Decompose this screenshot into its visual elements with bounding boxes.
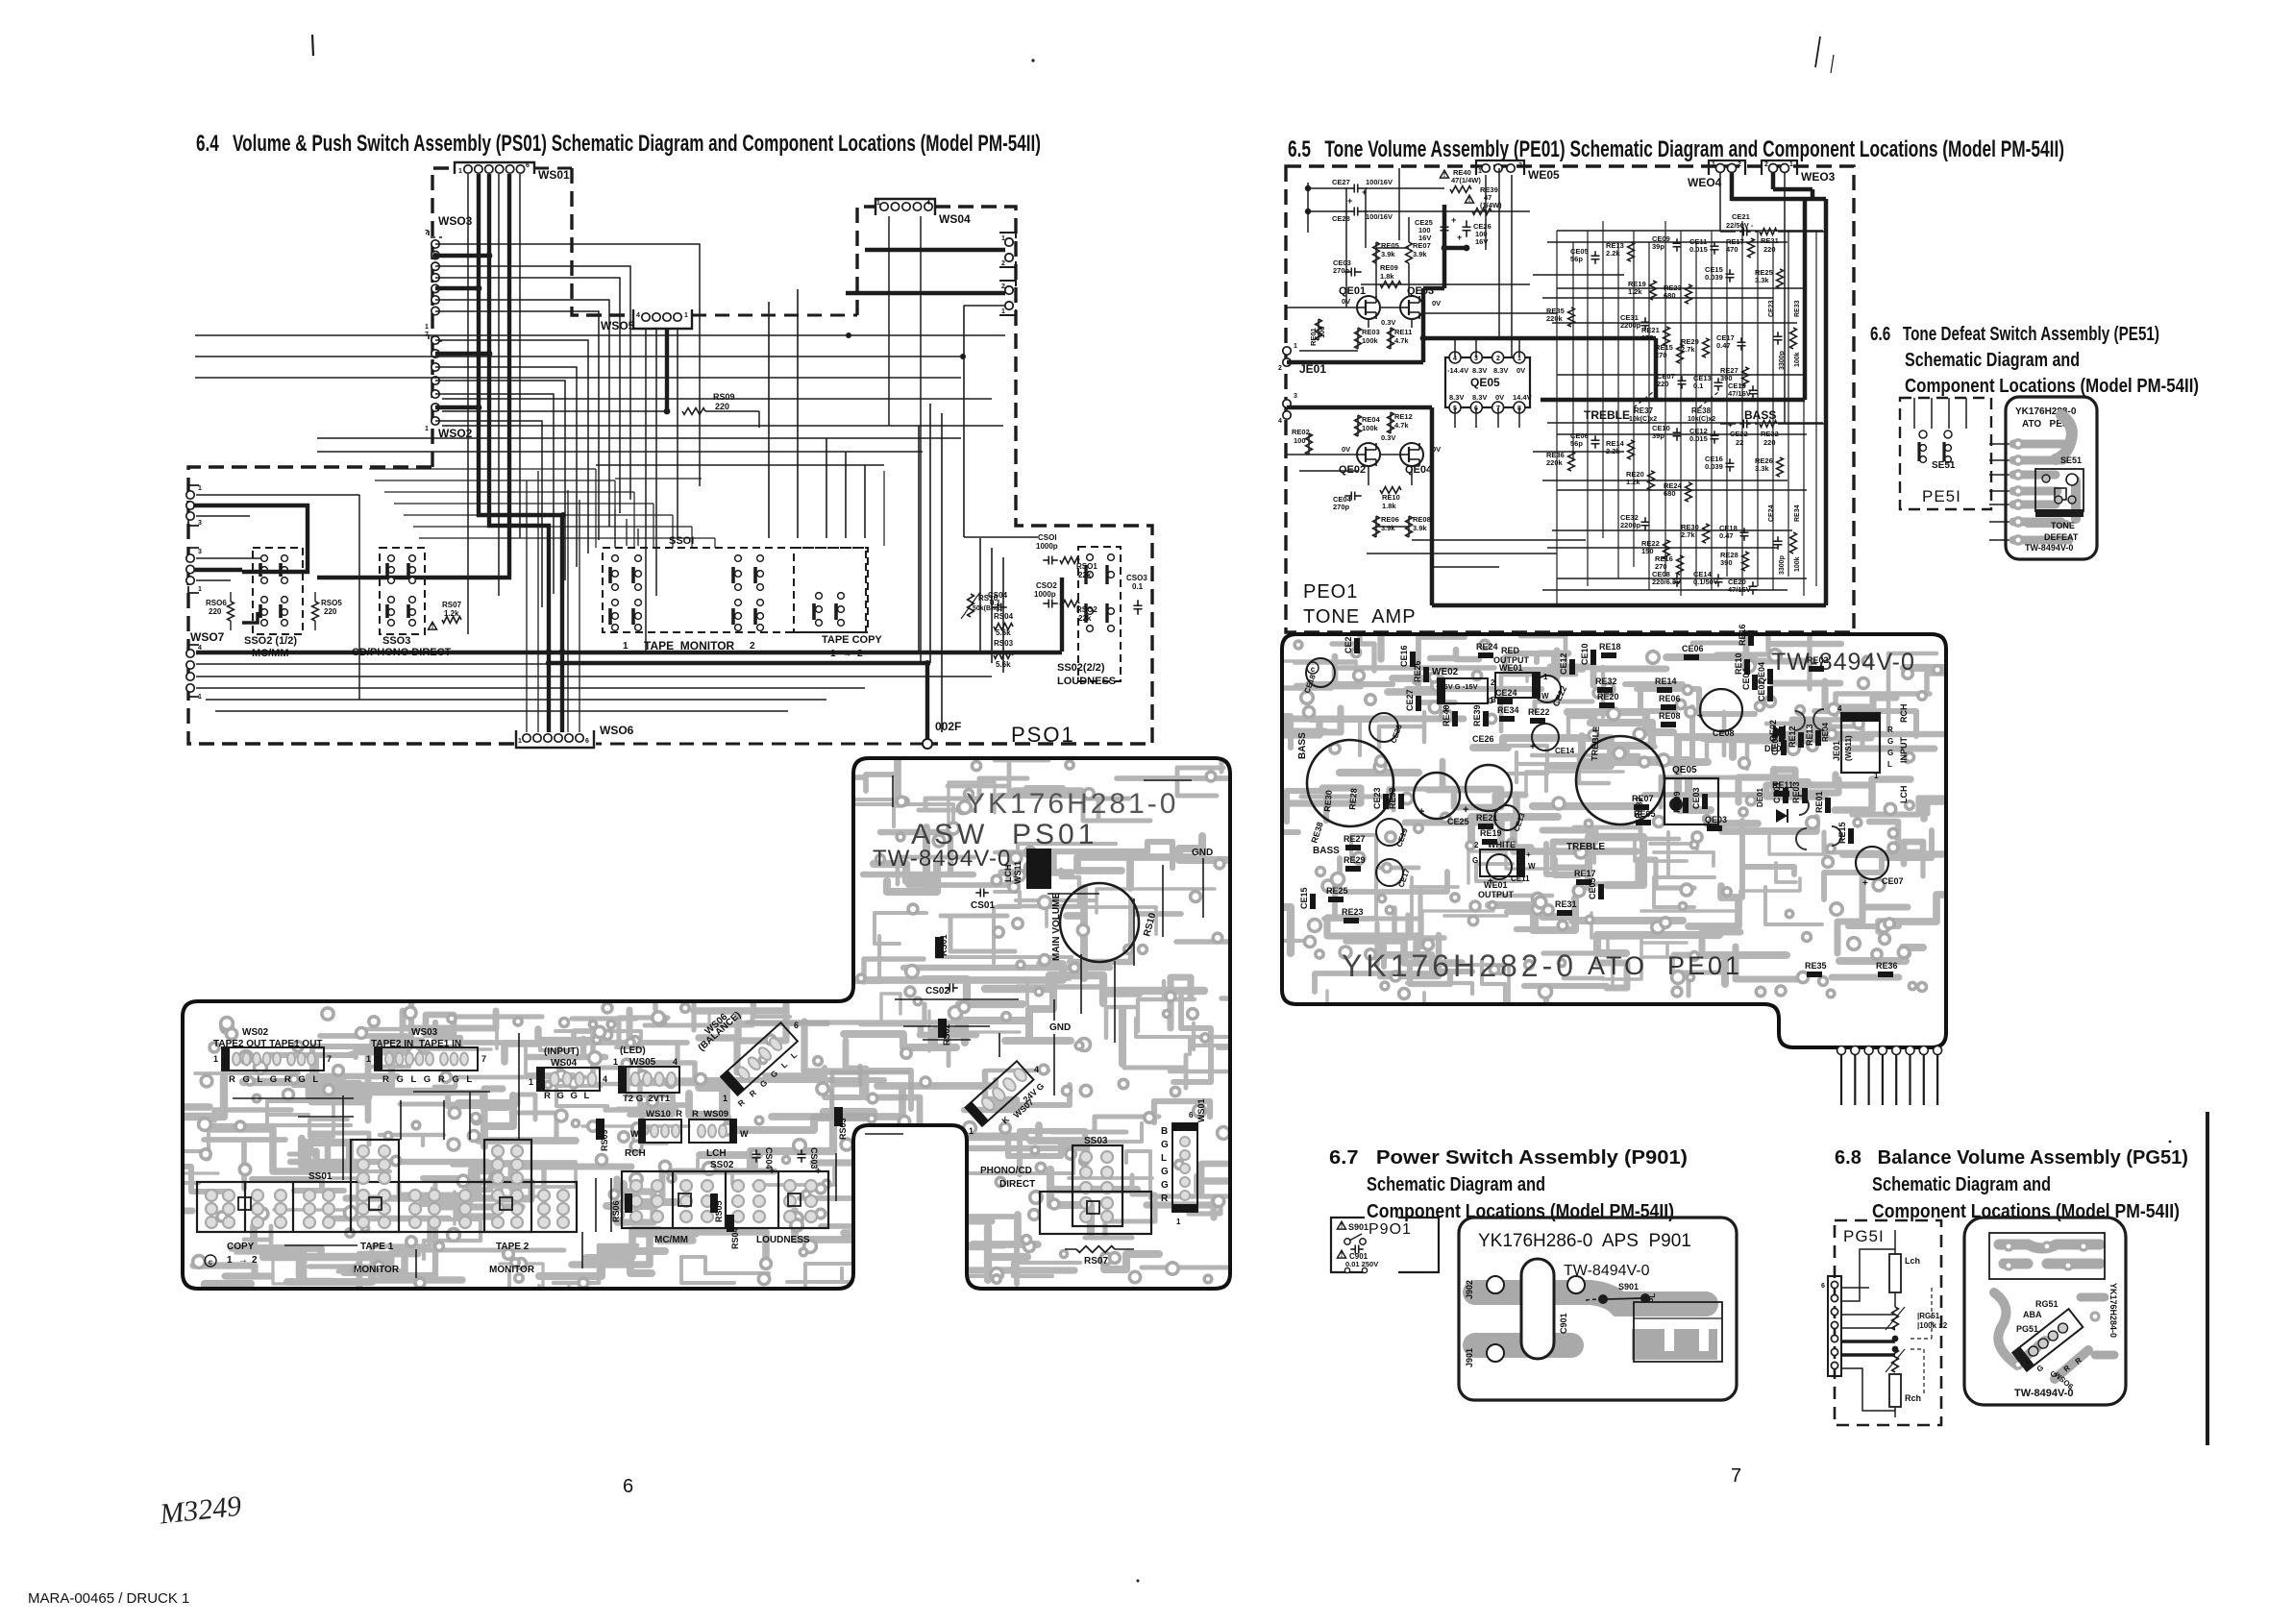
svg-text:PEO1: PEO1 [1303,581,1358,603]
resistor RE23 [1686,284,1692,304]
connector WS01 [455,162,570,182]
wire [1497,407,1499,428]
svg-text:TONE AMP: TONE AMP [1303,606,1417,627]
wire [1511,175,1513,357]
ASW PCB connector WS06 BALANCE [721,1022,798,1095]
svg-text:RE27: RE27 [1344,834,1366,844]
resistor RE29 [1703,338,1710,357]
svg-text:TAPE 1: TAPE 1 [360,1242,394,1252]
wire [435,278,620,513]
svg-text:INPUT: INPUT [1899,736,1909,763]
svg-text:220: 220 [715,402,729,411]
svg-text:B: B [1161,1126,1168,1137]
svg-text:CE28: CE28 [1332,214,1350,223]
capacitor CE32 [1644,517,1646,522]
svg-text:MARA-00465 / DRUCK 1: MARA-00465 / DRUCK 1 [28,1590,189,1607]
ATO PCB capacitor CE14 circle [1532,724,1559,750]
capacitor CE07 [1681,376,1683,381]
svg-text:RE14: RE14 [1655,677,1677,686]
resistor RE31 [1760,229,1777,235]
svg-text:RE06: RE06 [1659,694,1681,703]
svg-text:2: 2 [750,641,755,652]
wire [1368,465,1369,485]
svg-text:220/6.3V: 220/6.3V [1652,578,1681,586]
svg-text:(INPUT): (INPUT) [544,1046,579,1057]
wire [1454,407,1456,428]
svg-text:RE06: RE06 [1381,515,1399,524]
junction [960,354,966,359]
svg-text:3300p: 3300p [1779,555,1786,575]
wire [1572,242,1574,461]
svg-text:CE23: CE23 [1372,787,1382,809]
ATO PCB IC QE05 [1664,778,1718,824]
svg-text:RE09: RE09 [1380,263,1398,272]
transistor QE01 [1357,296,1380,319]
svg-text:1: 1 [227,1255,233,1266]
svg-text:PHONO/CD: PHONO/CD [980,1166,1032,1176]
wire [920,216,922,663]
svg-text:4: 4 [603,1074,607,1084]
svg-text:Component Locations (Model PM-: Component Locations (Model PM-54II) [1905,376,2199,397]
junction [1442,245,1448,252]
svg-text:L: L [1887,760,1892,769]
svg-text:BASS: BASS [1313,846,1340,856]
potentiometer RS10 [968,594,974,617]
svg-text:RE31: RE31 [1555,899,1577,909]
svg-text:CE21: CE21 [1732,212,1750,221]
switch SE51 contacts [1919,431,1927,438]
wire [196,494,359,496]
switch SS02(2/2) dashed box [1078,547,1121,681]
svg-text:G: G [1161,1167,1169,1177]
svg-text:3: 3 [1294,393,1297,400]
svg-text:c: c [209,1258,213,1267]
handwritten note M3249 [158,1490,243,1531]
wire bus WS05 pin [665,329,669,411]
wire [1454,338,1456,357]
svg-text:100: 100 [1294,436,1306,445]
ASW PCB connector WS01col [1172,1123,1197,1212]
svg-text:2.7k: 2.7k [1681,530,1695,539]
wire [1357,415,1359,436]
wire [1286,307,1357,308]
ATO PCB diode DE02 [1773,726,1785,739]
wire [1366,210,1530,212]
svg-text:RE18: RE18 [1599,642,1621,652]
resistor Lch [1889,1254,1901,1292]
junction [432,253,438,258]
wire [1375,242,1377,263]
wire [1757,231,1759,586]
ASW PCB connector WS04 [537,1068,600,1091]
svg-text:+15V G -15V: +15V G -15V [1436,682,1478,691]
resistor RE07 [1406,242,1413,263]
svg-text:+: + [1526,850,1531,859]
svg-text:002F: 002F [935,720,961,733]
ASW PS01 PCB outline stroke [183,758,1230,1289]
capacitor CE03 [1344,271,1351,273]
wire [1498,168,1500,338]
wire [1308,433,1310,455]
svg-text:MC/MM: MC/MM [252,648,289,659]
junction [560,512,566,518]
wire bus CE25 junction [1444,246,1467,251]
switch SS03 dashed box [380,548,425,634]
resistor RS03 [994,652,1013,659]
svg-text:RE04: RE04 [1821,722,1830,742]
svg-text:RE31: RE31 [1761,236,1779,245]
wire [964,536,1038,538]
wire CE21 row [1720,231,1736,233]
wire [1557,374,1807,376]
switch SS01 dashed box [603,548,868,632]
svg-text:RSO5: RSO5 [321,599,342,607]
svg-text:BASS: BASS [1744,408,1776,422]
wire [1547,547,1778,549]
potentiometer RG51 upper [1892,1307,1899,1330]
wire [1602,221,1604,538]
svg-text:1: 1 [198,485,202,492]
svg-text:7: 7 [327,1054,332,1064]
resistor RE02 [1306,433,1313,455]
svg-text:4.7k: 4.7k [1394,421,1409,430]
svg-text:RE07: RE07 [1413,241,1431,250]
svg-text:RE07: RE07 [1632,794,1654,803]
svg-text:RS04: RS04 [730,1227,740,1249]
svg-text:G: G [1887,737,1893,746]
svg-text:CE06: CE06 [1682,644,1704,653]
wire [826,438,827,538]
wire [435,340,588,554]
svg-text:WS01: WS01 [1196,1098,1206,1122]
terminal 002F [923,739,932,749]
capacitor C901 symbol [1338,1250,1346,1258]
svg-text:6.4 Volume & Push Switch Ass: 6.4 Volume & Push Switch Assembly (PS01)… [196,131,1041,157]
wire [1375,263,1377,297]
svg-text:4: 4 [673,1057,678,1067]
svg-text:CE26: CE26 [1472,734,1494,744]
connector bracket right 2 [999,281,1016,315]
svg-text:SE51: SE51 [1932,460,1956,471]
wire [196,687,865,689]
svg-text:+: + [1451,215,1456,225]
wire bus right conn 2 [846,291,1005,295]
svg-text:1000p: 1000p [1034,590,1056,599]
svg-text:2.2k: 2.2k [1606,447,1620,455]
wire [1368,318,1369,328]
wire [1617,242,1619,578]
resistor RE22 [1664,540,1670,559]
wire [435,381,565,580]
svg-text:Lch: Lch [1905,1256,1920,1266]
wire [1307,183,1309,233]
connector WE03 [1762,160,1797,175]
wire [526,480,528,732]
svg-text:RE21: RE21 [1476,813,1498,823]
wire [1680,231,1682,596]
wire [1308,210,1346,212]
svg-text:QE05: QE05 [1672,765,1697,775]
wire [537,471,539,732]
PG51 wires [1841,1287,1869,1289]
ATO PCB capacitor CE19 circle [1376,819,1403,846]
resistor RE33 [1790,328,1797,349]
svg-text:TW-8494V-0: TW-8494V-0 [873,846,1011,872]
svg-text:0.47: 0.47 [1719,531,1734,540]
wire [206,699,826,701]
wire [991,548,993,663]
ATO PE01 PCB pins [1840,1046,1842,1105]
wire [317,451,923,453]
svg-text:QE04: QE04 [1757,662,1766,684]
svg-text:!: ! [431,624,433,630]
svg-text:2: 2 [1474,841,1479,849]
svg-text:J902: J902 [1465,1280,1474,1299]
svg-text:22k: 22k [1078,571,1092,579]
wire [1664,221,1666,577]
wire [1408,263,1410,297]
svg-text:CE05: CE05 [1588,877,1597,899]
wire [1633,231,1635,567]
svg-text:CE04: CE04 [1741,668,1751,690]
svg-text:150: 150 [1641,333,1654,342]
ASW PCB resistor RS02 [938,1019,947,1038]
svg-text:680: 680 [1664,291,1676,300]
wire bus B [489,174,549,732]
wire [1788,231,1789,577]
wire [435,244,700,486]
svg-text:1000p: 1000p [1036,542,1058,551]
svg-text:1: 1 [198,586,202,593]
svg-text:QE01: QE01 [1339,285,1366,297]
resistor RE10 [1380,487,1401,494]
junction [1892,1336,1899,1342]
svg-text:c: c [1311,665,1316,674]
resistor RE13 [1628,242,1635,261]
ATO PCB connector WE02 [1438,678,1488,703]
stray mark bottom [1137,1580,1140,1583]
svg-text:RE19: RE19 [1480,828,1502,838]
svg-text:RE25: RE25 [1326,886,1348,896]
ATO PCB capacitor CE17 circle [1376,859,1403,886]
svg-text:LOUDNESS: LOUDNESS [1057,676,1116,687]
svg-text:RE30: RE30 [1322,790,1334,812]
wire [1412,539,1586,541]
svg-text:!: ! [1468,197,1470,204]
wire [964,305,1005,307]
svg-text:3: 3 [198,549,202,555]
svg-text:100k: 100k [1794,556,1801,572]
svg-text:470: 470 [1726,245,1738,254]
svg-text:0V: 0V [1516,366,1525,375]
svg-text:(WS11): (WS11) [1844,735,1853,761]
wire [1475,338,1477,357]
P901 PCB hole 3 [1567,1276,1585,1293]
wire [498,174,500,596]
svg-text:2: 2 [1001,260,1005,267]
svg-text:2200p: 2200p [1620,521,1641,529]
svg-text:RE37: RE37 [1634,406,1654,415]
wire [615,478,702,480]
wire [435,254,489,258]
svg-text:22/50V -: 22/50V - [1726,221,1754,230]
svg-text:PE5I: PE5I [1922,487,1961,505]
svg-text:RS05: RS05 [714,1200,724,1222]
svg-text:YK176H284-0: YK176H284-0 [2108,1283,2118,1338]
wire [1408,516,1410,537]
svg-text:RS03: RS03 [838,1118,848,1140]
svg-text:1: 1 [1543,673,1548,681]
resistor RS05 [312,602,319,621]
connector WS04 [875,199,971,226]
wire [714,538,716,548]
potentiometer RG51 lower [1892,1349,1899,1372]
wire [1375,516,1377,537]
ASW PCB wire stubs [233,1097,354,1099]
PE51 PCB outline [2006,397,2097,559]
svg-text:0.01 250V: 0.01 250V [1345,1260,1378,1268]
svg-text:G: G [1488,697,1493,705]
wire [1815,231,1817,586]
svg-text:YK176H282-0: YK176H282-0 [1342,948,1577,983]
ASW PCB resistor RS05 [710,1193,718,1213]
wire [435,394,554,594]
svg-text:W: W [740,1129,749,1139]
wire [1390,328,1392,349]
svg-text:6: 6 [1821,1283,1825,1290]
svg-text:Component Locations (Model PM-: Component Locations (Model PM-54II) [1367,1201,1674,1222]
svg-text:CE07: CE07 [1882,876,1904,886]
transistor QE02 [1357,443,1380,466]
svg-text:100/16V: 100/16V [1366,212,1393,221]
svg-text:+: + [1463,804,1468,816]
capacitor CS02 [1043,603,1048,604]
svg-text:W: W [1541,692,1549,701]
svg-text:1: 1 [213,1054,218,1064]
svg-text:PG5I: PG5I [1843,1227,1885,1245]
svg-text:390: 390 [1720,558,1733,567]
wire [768,302,770,538]
capacitor CE23 [1777,332,1779,336]
svg-text:1: 1 [1712,161,1715,168]
wire [1533,274,1624,276]
wire [637,529,639,546]
wire [918,426,920,652]
P901 schematic box [1331,1218,1365,1272]
svg-text:CE15: CE15 [1299,887,1309,909]
wire [633,492,635,548]
svg-text:CE23: CE23 [1768,300,1775,317]
svg-text:Rch: Rch [1905,1393,1921,1403]
svg-text:W: W [1528,862,1536,871]
switch SS02(1/2) dashed box [253,548,303,634]
capacitor CE27 [1344,187,1354,189]
svg-text:TREBLE: TREBLE [1590,726,1601,761]
svg-text:DE01: DE01 [1756,787,1764,807]
wire bus mid [1654,338,1659,400]
capacitor CE05 [1594,251,1596,256]
svg-text:100/16V: 100/16V [1366,178,1393,186]
svg-text:6.8 Balance Volume Assembly: 6.8 Balance Volume Assembly (PG51) [1835,1147,2188,1169]
wire [1286,454,1357,455]
resistor RS04 [994,624,1013,630]
svg-text:RE34: RE34 [1497,705,1519,715]
resistor RE16 [1677,555,1684,575]
svg-text:RE20: RE20 [1597,692,1619,701]
connector WS06 [516,724,634,748]
wire [1547,241,1788,243]
svg-text:1: 1 [876,200,880,207]
svg-text:SSOI: SSOI [669,535,694,547]
svg-text:RS01: RS01 [939,934,949,956]
svg-text:CS01: CS01 [971,900,995,911]
svg-text:C901: C901 [1559,1313,1568,1334]
ATO PCB transistors QE0x [1795,711,1805,730]
svg-text:TW-8494V-0: TW-8494V-0 [2014,1388,2074,1399]
svg-text:1: 1 [529,1077,533,1087]
svg-text:+: + [1457,233,1462,242]
svg-text:TAPE MONITOR: TAPE MONITOR [644,639,735,652]
resistor RE30 [1703,524,1710,543]
P901 PCB hole J901 [1487,1344,1504,1362]
wire [567,490,569,732]
wire [1408,217,1410,242]
ATO PCB potentiometer TREBLE RE37 [1576,736,1664,824]
resistor RE39 [1466,195,1474,203]
resistor RE34 [1790,532,1797,554]
svg-text:270p: 270p [1333,266,1350,275]
capacitor CS03 [1137,600,1139,605]
svg-text:RE36: RE36 [1876,961,1898,971]
svg-text:W: W [630,1129,639,1139]
wire [1711,231,1713,590]
connector WS03 [425,214,473,331]
wire bus MCMM [193,505,308,572]
svg-text:2.2k: 2.2k [1606,249,1620,258]
ASW PCB potentiometer MAIN VOLUME [1060,883,1139,962]
svg-text:Schematic Diagram and: Schematic Diagram and [1367,1174,1545,1195]
wire [1411,318,1413,328]
wire [1299,470,1358,472]
wire [435,421,542,607]
svg-text:CE24: CE24 [1768,504,1775,522]
svg-text:T2 G 2VT1: T2 G 2VT1 [623,1094,671,1104]
svg-text:SSO3: SSO3 [382,635,410,647]
svg-text:WSO7: WSO7 [190,630,225,644]
svg-text:LCH: LCH [1003,865,1013,883]
svg-text:CE01: CE01 [1772,781,1782,803]
PE51 dashed box [1900,398,1991,509]
resistor RE04 [1355,415,1362,436]
svg-text:WS01: WS01 [538,168,570,182]
svg-text:1: 1 [1478,168,1482,175]
svg-text:ATO PE01: ATO PE01 [1588,951,1742,980]
ASW PCB resistor RS07 [1076,1246,1115,1253]
svg-text:1: 1 [684,312,688,319]
capacitor CE11 [1714,241,1715,246]
wire [196,557,261,559]
ASW PCB capacitor CS04 [755,1149,757,1154]
svg-text:0V: 0V [1432,299,1441,308]
wire CE22 row [1720,423,1736,425]
svg-text:220k: 220k [1546,314,1564,323]
wire [626,519,628,546]
wire bus JE01 pin2 [1287,360,1423,365]
PG51 PCB outline [1964,1218,2126,1405]
svg-text:RE02: RE02 [1292,428,1310,436]
ATO PCB capacitor CE13 circle [1494,805,1519,830]
svg-text:Schematic Diagram and: Schematic Diagram and [1872,1174,2051,1195]
